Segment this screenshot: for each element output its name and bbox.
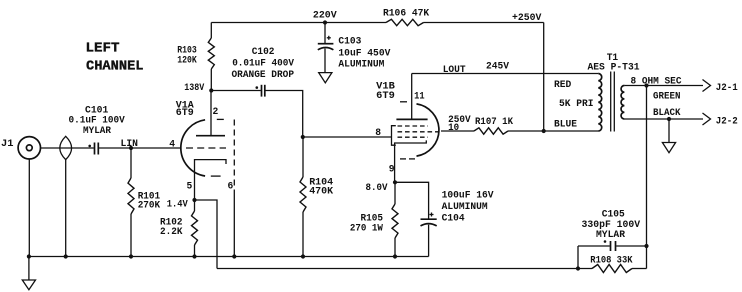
svg-text:J2-2: J2-2 bbox=[716, 117, 738, 128]
svg-text:BLACK: BLACK bbox=[653, 108, 681, 119]
feedback line wire bbox=[217, 268, 592, 270]
wire shield to ground rail bbox=[65, 160, 67, 257]
wire LOUT plate to transformer bbox=[412, 73, 599, 75]
resistor R106 bbox=[383, 9, 429, 26]
resistor R105 bbox=[350, 182, 398, 256]
wire feedback jog from cathode bbox=[195, 200, 218, 269]
svg-text:+250V: +250V bbox=[512, 13, 541, 24]
svg-text:0.1uF 100V: 0.1uF 100V bbox=[69, 116, 125, 127]
ground symbol secondary bbox=[662, 119, 675, 153]
svg-text:0.01uF 400V: 0.01uF 400V bbox=[232, 58, 294, 69]
svg-text:220V: 220V bbox=[313, 11, 337, 22]
svg-text:270 1W: 270 1W bbox=[350, 224, 383, 235]
resistor R101 bbox=[128, 148, 160, 257]
wire pin 6 to ground rail bbox=[233, 190, 235, 257]
svg-text:6: 6 bbox=[228, 181, 234, 192]
svg-text:6T9: 6T9 bbox=[176, 108, 194, 119]
svg-text:8: 8 bbox=[375, 128, 381, 139]
ground rail wire bbox=[29, 256, 429, 258]
svg-text:138V: 138V bbox=[184, 83, 204, 94]
svg-text:100uF 16V: 100uF 16V bbox=[442, 191, 494, 202]
svg-text:8.0V: 8.0V bbox=[366, 183, 388, 194]
svg-text:MYLAR: MYLAR bbox=[596, 230, 625, 241]
arrow J2-1 bbox=[703, 80, 738, 94]
resistor R103 bbox=[177, 23, 214, 91]
wire pin 10 to R107 bbox=[441, 130, 474, 132]
svg-text:C105: C105 bbox=[602, 209, 625, 220]
svg-text:R106 47K: R106 47K bbox=[383, 9, 429, 20]
svg-text:LEFT: LEFT bbox=[86, 41, 120, 57]
capacitor C105 bbox=[578, 209, 647, 268]
node B+ junction bbox=[542, 129, 546, 133]
wire grid node to V1B pin 8 bbox=[303, 136, 392, 138]
resistor R104 bbox=[300, 137, 333, 257]
title LEFT CHANNEL bbox=[86, 41, 144, 75]
tube V1A (triode half of 6T9) bbox=[176, 100, 226, 200]
svg-text:1.4V: 1.4V bbox=[167, 200, 188, 211]
junction dots on ground rail bbox=[27, 254, 397, 258]
svg-text:GREEN: GREEN bbox=[653, 91, 681, 102]
svg-text:ALUMINUM: ALUMINUM bbox=[442, 202, 488, 213]
svg-text:10uF 450V: 10uF 450V bbox=[338, 49, 390, 60]
capacitor C104 bbox=[395, 182, 494, 256]
resistor R102 bbox=[160, 200, 198, 257]
svg-text:4: 4 bbox=[169, 139, 175, 150]
wire C102 to V1B grid bbox=[266, 91, 303, 138]
svg-text:6T9: 6T9 bbox=[376, 91, 395, 102]
connector J1 bbox=[1, 137, 41, 159]
svg-text:C102: C102 bbox=[252, 47, 275, 58]
svg-text:LIN: LIN bbox=[121, 139, 139, 150]
node cathode V1A 1.4V bbox=[167, 198, 197, 211]
svg-text:R107 1K: R107 1K bbox=[475, 117, 513, 128]
wire secondary top to J2-1 bbox=[624, 85, 703, 87]
tube V1B (pentode half of 6T9) bbox=[376, 74, 441, 183]
svg-text:J2-1: J2-1 bbox=[716, 83, 738, 94]
node V1B grid bbox=[301, 135, 305, 139]
svg-text:2: 2 bbox=[213, 107, 219, 118]
svg-text:MYLAR: MYLAR bbox=[83, 126, 111, 137]
wire C101 to V1A grid bbox=[98, 147, 181, 149]
wire secondary bottom to J2-2 bbox=[624, 118, 703, 120]
svg-text:8 OHM SEC: 8 OHM SEC bbox=[631, 76, 682, 87]
svg-text:5K PRI: 5K PRI bbox=[559, 99, 594, 110]
capacitor C102 bbox=[232, 47, 295, 96]
wire 138V to C102 bbox=[211, 90, 260, 92]
svg-text:R108 33K: R108 33K bbox=[590, 256, 632, 267]
cable shield bead bbox=[60, 136, 72, 159]
svg-text:11: 11 bbox=[414, 92, 425, 103]
node LIN bbox=[121, 139, 139, 150]
node 8.0V cathode junction bbox=[366, 180, 398, 194]
svg-text:BLUE: BLUE bbox=[554, 120, 577, 131]
svg-text:LOUT: LOUT bbox=[443, 65, 466, 76]
svg-text:245V: 245V bbox=[486, 62, 509, 73]
svg-text:C103: C103 bbox=[338, 36, 361, 47]
top supply rail wire bbox=[211, 22, 543, 24]
node 220V bbox=[313, 11, 337, 25]
node feedback / R108 left bbox=[576, 266, 580, 270]
svg-text:5: 5 bbox=[187, 181, 193, 192]
svg-text:J1: J1 bbox=[1, 139, 13, 150]
wire J1 ground drop bbox=[28, 159, 30, 257]
ground symbol C103 bbox=[319, 73, 332, 83]
pin 6 dashed envelope wire bbox=[233, 120, 235, 191]
wire R107 to B+ node and transformer BLUE bbox=[508, 130, 598, 132]
wire J1 to C101 bbox=[41, 147, 94, 149]
resistor R107 bbox=[474, 117, 513, 134]
node 138V bbox=[184, 83, 213, 94]
arrow J2-2 bbox=[703, 113, 738, 128]
svg-text:2.2K: 2.2K bbox=[160, 227, 183, 238]
svg-text:9: 9 bbox=[389, 164, 395, 175]
wire +250V drop bbox=[543, 23, 545, 132]
svg-text:270K: 270K bbox=[138, 201, 161, 212]
wire feedback riser to secondary bbox=[646, 86, 648, 269]
node secondary tap GREEN bbox=[644, 83, 648, 87]
node C105 right junction bbox=[644, 244, 648, 248]
svg-text:C104: C104 bbox=[442, 213, 465, 224]
ground symbol main bbox=[22, 257, 35, 290]
svg-text:120K: 120K bbox=[177, 56, 197, 67]
capacitor C101 bbox=[69, 105, 125, 154]
node secondary ground tap bbox=[667, 117, 671, 121]
transformer T1 bbox=[554, 53, 640, 131]
svg-text:250V: 250V bbox=[448, 115, 471, 126]
capacitor C103 bbox=[318, 23, 391, 73]
svg-text:ALUMINUM: ALUMINUM bbox=[338, 60, 384, 71]
svg-text:ORANGE DROP: ORANGE DROP bbox=[232, 70, 295, 81]
svg-text:AES P-T31: AES P-T31 bbox=[588, 63, 640, 74]
wire V1A plate lead bbox=[210, 91, 212, 136]
svg-text:CHANNEL: CHANNEL bbox=[86, 58, 144, 74]
svg-text:470K: 470K bbox=[309, 187, 333, 198]
svg-text:RED: RED bbox=[554, 80, 571, 91]
resistor R108 bbox=[590, 256, 646, 273]
